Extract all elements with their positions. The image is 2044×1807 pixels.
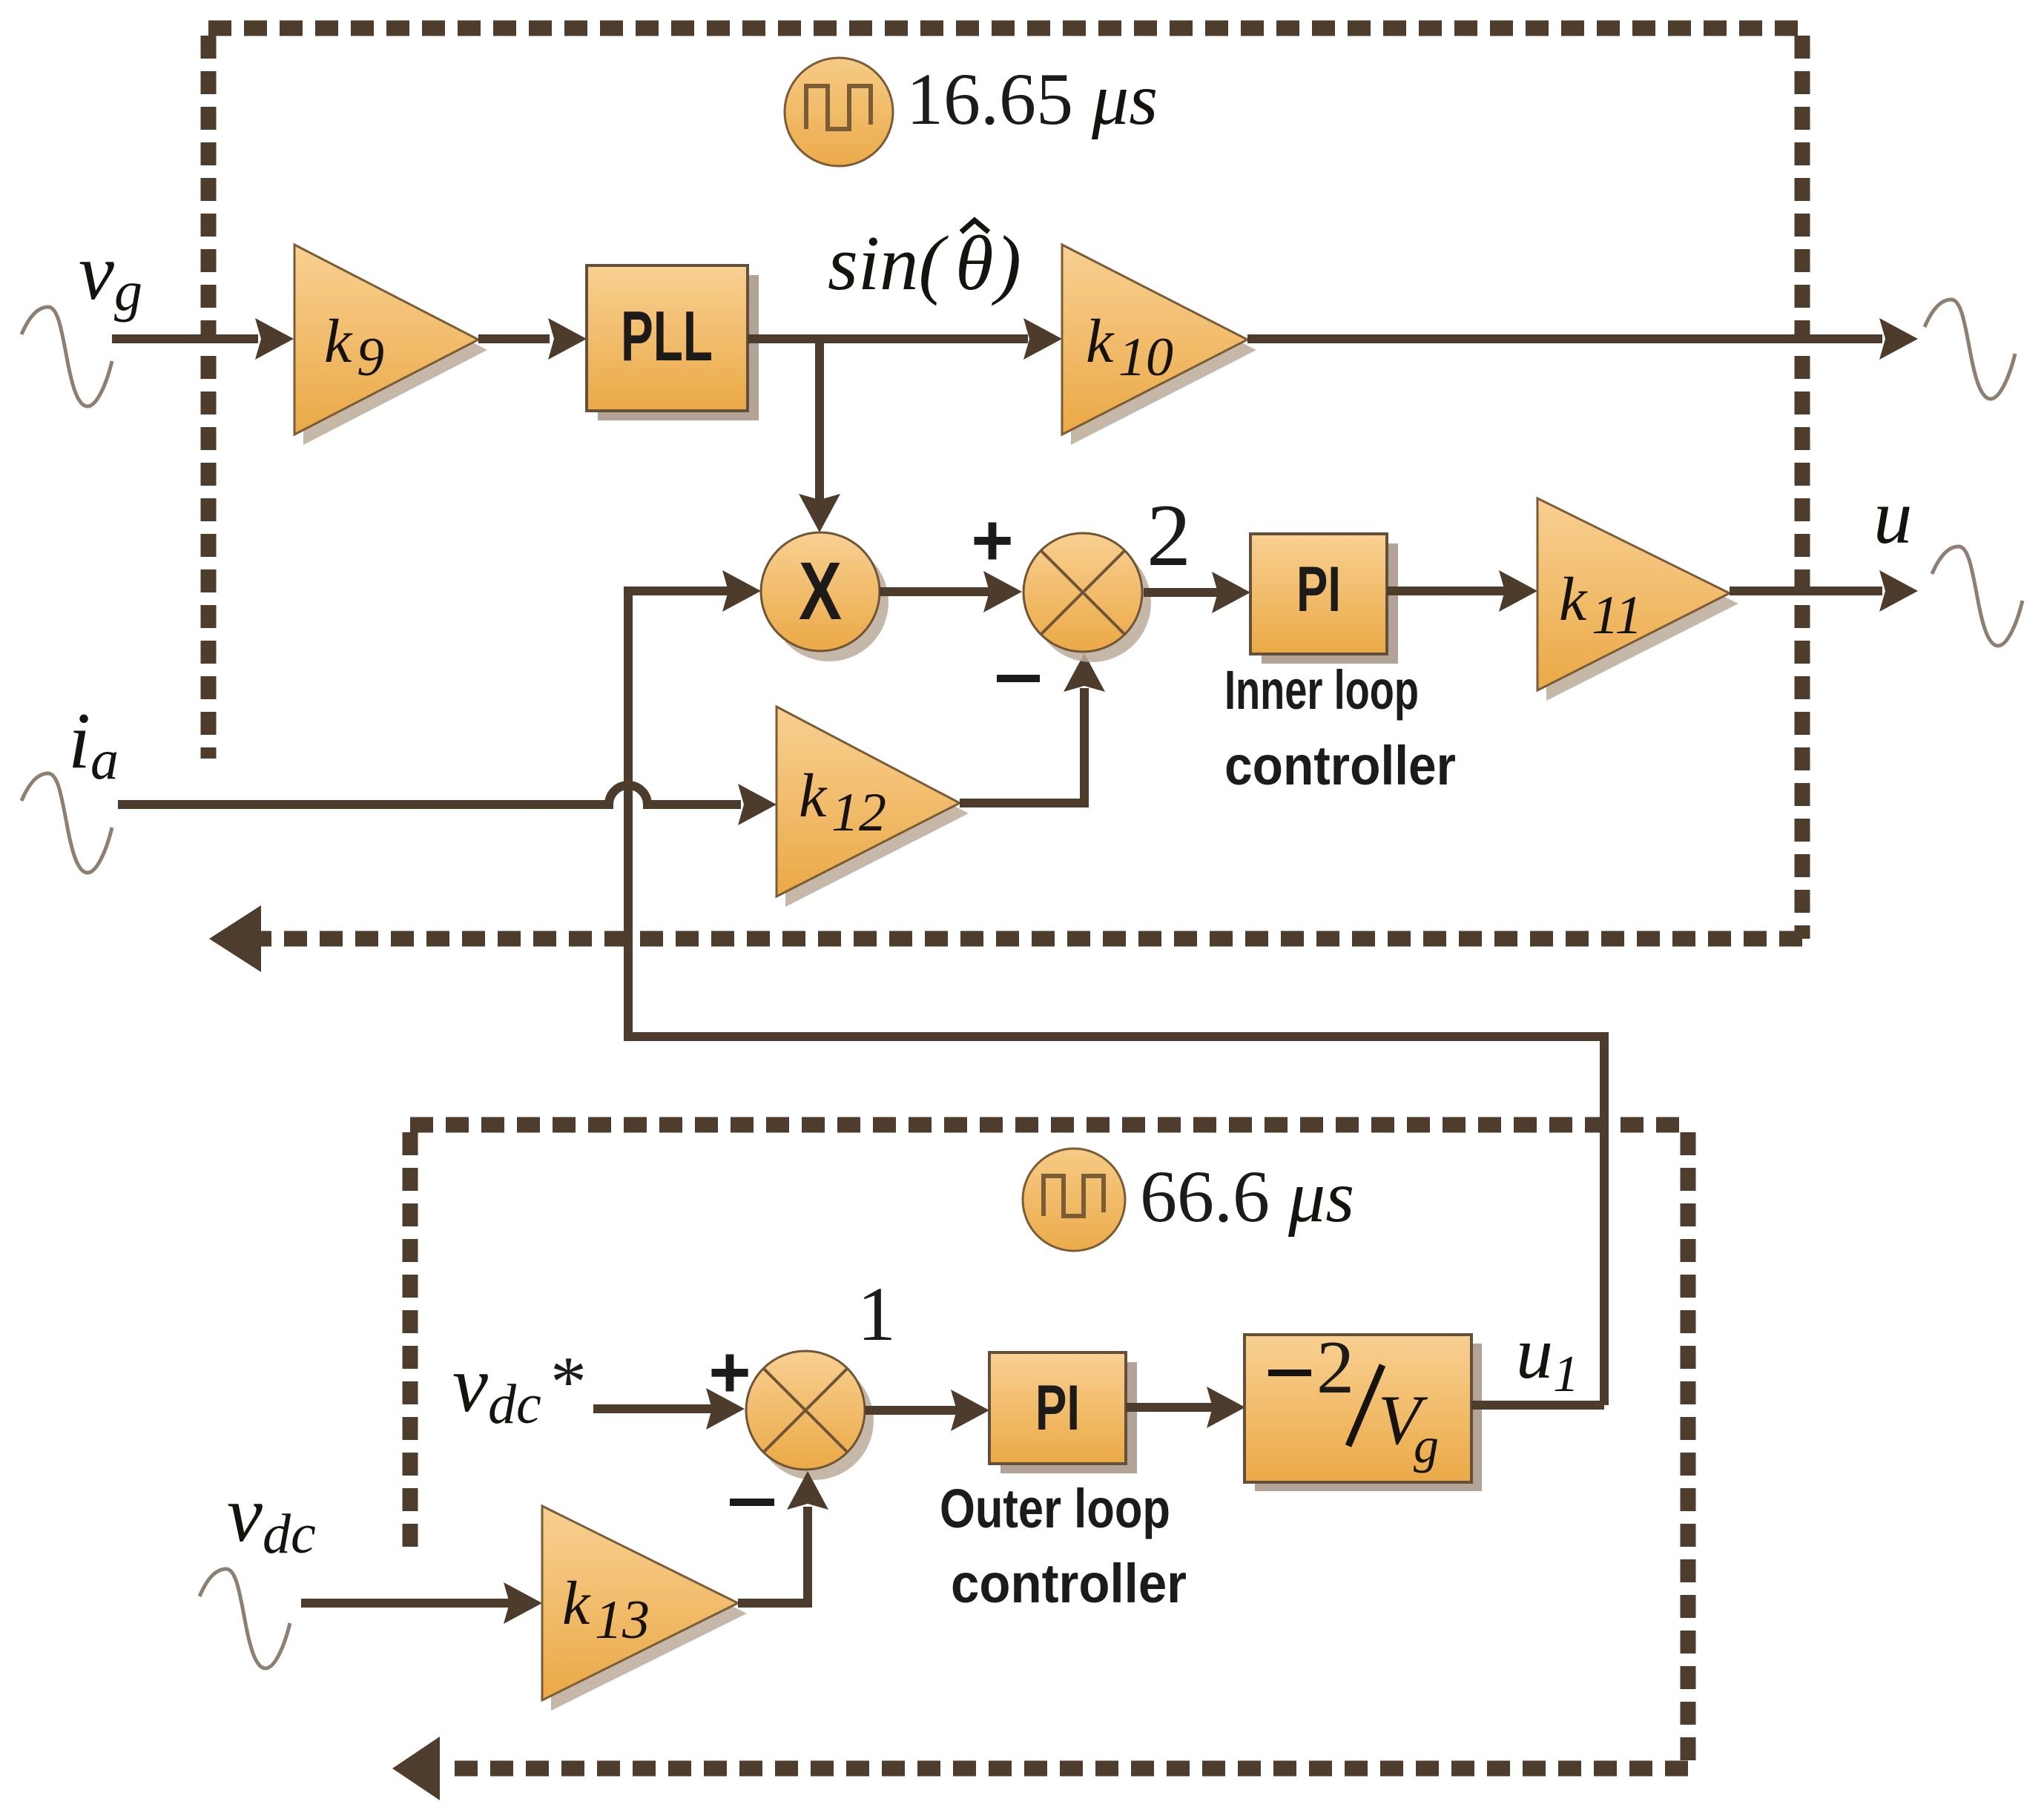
clock symbol 66.6us [1023, 1149, 1125, 1251]
wire PI to k11 [1387, 587, 1505, 595]
block -2/Vg [1244, 1326, 1482, 1491]
svg-text:): ) [992, 219, 1021, 306]
summer 1 circle [746, 1351, 874, 1480]
output sine top right [1925, 300, 2015, 399]
svg-text:10: 10 [1118, 327, 1173, 388]
outer loop feedback arrowhead [392, 1737, 440, 1800]
svg-text:controller: controller [1224, 735, 1456, 796]
inner loop dashed box [208, 28, 1802, 939]
svg-text:g: g [1414, 1417, 1439, 1473]
output sine u [1932, 546, 2022, 646]
wire -2/Vg out to riser [1471, 1401, 1604, 1410]
ia source sine [22, 773, 112, 873]
svg-text:k: k [1559, 565, 1588, 634]
svg-text:Inner loop: Inner loop [1224, 659, 1419, 721]
wire PLL to k10 [748, 334, 1028, 343]
svg-text:13: 13 [595, 1590, 650, 1651]
wire X to summer 2 [880, 587, 989, 596]
wire vdc to k13 [301, 1599, 510, 1608]
gain k13 [542, 1506, 747, 1711]
svg-text:16.65 μs: 16.65 μs [906, 58, 1158, 140]
wire vg input [112, 334, 258, 343]
wire ia to k12 with hop [118, 785, 741, 805]
minus sign summer 2 [997, 675, 1040, 682]
multiplier X [761, 532, 889, 661]
svg-text:k: k [1086, 307, 1115, 376]
svg-text:2: 2 [1147, 486, 1191, 584]
PI block outer [989, 1352, 1137, 1473]
wire summer2 to PI [1144, 588, 1218, 597]
svg-text:9: 9 [357, 327, 384, 388]
wire branch down to multiplier [815, 339, 824, 500]
wire k10 to output [1247, 334, 1882, 343]
vdc source sine [200, 1569, 290, 1668]
svg-text:k: k [324, 307, 353, 376]
svg-text:66.6 μs: 66.6 μs [1140, 1155, 1354, 1238]
svg-text:*: * [550, 1342, 587, 1422]
outer loop dashed box [410, 1125, 1688, 1768]
wire k9 to PLL [478, 334, 550, 343]
theta hat [961, 220, 989, 232]
svg-text:2: 2 [1316, 1326, 1354, 1410]
feedback riser u1 to multiplier [628, 591, 1604, 1405]
PLL block [587, 265, 759, 420]
svg-text:PI: PI [1296, 554, 1341, 625]
svg-text:11: 11 [1592, 585, 1643, 646]
svg-text:u: u [1873, 473, 1913, 560]
svg-text:X: X [799, 546, 842, 637]
svg-text:+: + [971, 499, 1013, 581]
svg-text:sin(: sin( [828, 219, 949, 306]
svg-text:+: + [708, 1331, 751, 1413]
wire k13 to summer 1 [738, 1507, 808, 1603]
arrow into k9 [255, 318, 294, 360]
inner loop feedback arrowhead [209, 905, 261, 972]
gain k10 [1062, 245, 1256, 445]
gain k9 [294, 245, 487, 445]
wire summer1 to PI outer [865, 1406, 957, 1415]
wire PI outer to -2/Vg [1126, 1403, 1213, 1412]
svg-text:Outer loop: Outer loop [940, 1478, 1170, 1539]
svg-text:1: 1 [857, 1272, 896, 1357]
summer 2 circle [1023, 533, 1151, 662]
svg-text:PLL: PLL [621, 297, 713, 376]
svg-text:controller: controller [951, 1553, 1187, 1614]
svg-text:12: 12 [831, 782, 886, 843]
gain k12 [777, 707, 969, 907]
wire k11 to output u [1730, 587, 1882, 595]
svg-text:PI: PI [1035, 1372, 1080, 1444]
minus sign summer 1 [730, 1499, 774, 1506]
wire k12 to summer 2 [960, 688, 1084, 803]
clock symbol 16.65us [785, 58, 893, 166]
svg-text:k: k [799, 762, 828, 830]
wire vdc* to summer 1 [593, 1404, 712, 1413]
PI block inner [1250, 534, 1398, 664]
gain k11 [1537, 498, 1738, 701]
svg-text:k: k [562, 1569, 591, 1638]
vg source sine [22, 307, 112, 406]
